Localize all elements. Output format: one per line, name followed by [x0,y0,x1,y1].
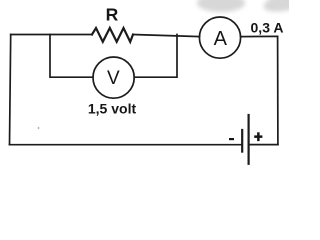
faint scan speck [38,127,40,129]
node junction right (x=177) drop wire [134,35,177,78]
wire: ammeter to right corner [241,35,278,37]
svg-text:1,5 volt: 1,5 volt [88,100,137,116]
svg-text:0,3 A: 0,3 A [251,20,284,36]
svg-text:A: A [214,28,228,50]
wire: rail resistor to ammeter [133,35,200,37]
resistor R (zigzag) [92,28,133,42]
scan shadow blob top right corner [262,0,315,16]
svg-text:R: R [106,4,119,24]
wire: right rail down [277,36,279,144]
svg-text:V: V [107,68,120,89]
battery B1 negative plate (short) [241,130,243,152]
battery minus sign [229,138,234,140]
wire: top rail left segment (corner to resistor) [11,34,92,36]
wire: bottom rail battery - plate to left corner [10,144,242,146]
voltmeter V1 circle [93,57,134,98]
wire: bottom right segment to battery + plate [249,144,278,146]
node junction left (x=50) drop wire [50,35,93,78]
ammeter A1 circle [199,17,240,58]
wire: left rail [10,35,11,145]
battery plus sign [254,135,262,138]
battery B1 positive plate (long) [248,115,250,164]
scan shadow blob top center-right [197,0,245,12]
